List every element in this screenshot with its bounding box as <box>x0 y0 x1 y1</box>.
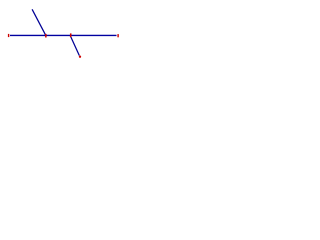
net endpoint marker: bottom dangling end of lower diagonal net <box>79 56 81 58</box>
node B: junction of lower diagonal net with horizontal net <box>70 33 72 37</box>
net endpoint marker: left dangling end of horizontal net <box>8 34 9 37</box>
node A: junction of upper diagonal net with horizontal net <box>45 34 47 38</box>
wire: upper diagonal net segment <box>32 9 46 35</box>
wire: horizontal net segment <box>10 34 117 36</box>
net endpoint marker: right dangling end of horizontal net <box>117 34 118 37</box>
wire: lower diagonal net segment <box>70 36 79 56</box>
